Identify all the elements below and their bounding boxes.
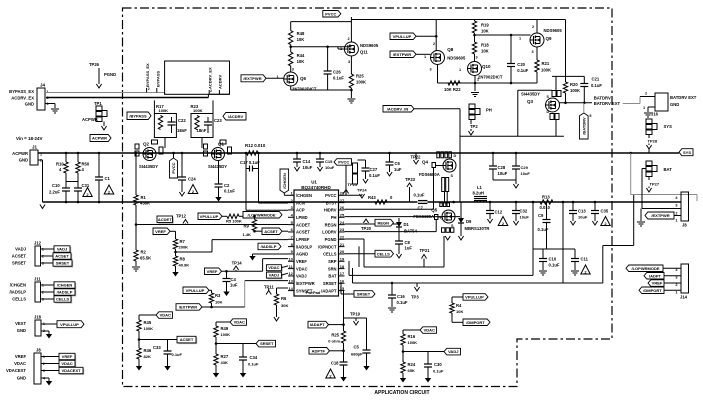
connector J16 xyxy=(651,93,697,117)
svg-text:C17 0.1uF: C17 0.1uF xyxy=(240,160,260,165)
svg-text:65K: 65K xyxy=(408,368,415,373)
ground xyxy=(51,109,59,113)
svg-text:/EXTPWR: /EXTPWR xyxy=(296,281,315,286)
wire ACDRV_IN run xyxy=(414,108,460,110)
node /DMPORT tag xyxy=(463,319,490,326)
svg-text:10: 10 xyxy=(288,256,292,261)
wire xyxy=(572,214,574,222)
pin 1 label xyxy=(643,106,645,110)
node xyxy=(350,89,353,92)
svg-text:R44: R44 xyxy=(297,53,305,58)
resistor R49 xyxy=(214,326,230,337)
node /BYPASS tag xyxy=(127,112,151,120)
capacitor C22 xyxy=(168,117,188,133)
node VPULLUP tag xyxy=(41,321,84,328)
wire J4 gnd stub xyxy=(45,103,55,105)
wire C2 lead xyxy=(218,161,220,184)
svg-text:VEXT: VEXT xyxy=(15,321,26,326)
wire xyxy=(266,77,284,79)
wire ACDRV net upper xyxy=(208,93,229,95)
svg-text:/ACDRV: /ACDRV xyxy=(228,114,244,119)
svg-text:ACDET: ACDET xyxy=(296,222,311,227)
svg-text:IADPT: IADPT xyxy=(649,273,662,278)
warning triangle xyxy=(601,217,610,226)
svg-text:/LOPWRMODE: /LOPWRMODE xyxy=(248,212,276,217)
wire xyxy=(77,191,79,202)
svg-text:VDAC: VDAC xyxy=(14,361,26,366)
transistor Q9 xyxy=(530,25,562,54)
node xyxy=(572,201,575,204)
wire C21 lead xyxy=(583,76,585,83)
svg-text:BAT: BAT xyxy=(664,167,673,172)
ground xyxy=(347,99,355,103)
wire ACDRV_EX riser xyxy=(207,94,209,97)
wire xyxy=(222,215,227,217)
svg-text:GND: GND xyxy=(17,376,26,381)
capacitor C33 xyxy=(153,340,183,358)
resistor R4 xyxy=(450,303,464,314)
pin 1 /CHGEN xyxy=(288,191,312,199)
svg-text:VPULLUP: VPULLUP xyxy=(60,322,79,327)
wire xyxy=(391,298,393,307)
svg-text:R3: R3 xyxy=(215,293,221,298)
svg-text:0.1uF: 0.1uF xyxy=(538,227,549,232)
wire xyxy=(253,168,259,170)
wire J1 gnd elbow xyxy=(38,159,43,161)
svg-text:PVCC: PVCC xyxy=(325,11,336,16)
svg-text:VPULLUP: VPULLUP xyxy=(186,288,205,293)
wire J8 pin4 xyxy=(620,201,681,203)
wire xyxy=(474,33,476,42)
node /IADSLP tag xyxy=(258,243,281,250)
svg-text:/DMPORT: /DMPORT xyxy=(466,320,485,325)
wire xyxy=(366,318,368,350)
wire xyxy=(341,293,354,295)
svg-text:CELLS: CELLS xyxy=(12,297,26,302)
ground xyxy=(172,272,178,277)
svg-text:C5: C5 xyxy=(354,345,360,350)
jumper box xyxy=(165,61,230,94)
svg-text:L1: L1 xyxy=(477,185,483,190)
node xyxy=(489,201,492,204)
connector J8 xyxy=(675,192,688,228)
ground xyxy=(179,192,184,196)
connector J14 xyxy=(675,264,688,300)
transistor Q11 xyxy=(340,37,379,64)
resistor R50 xyxy=(76,162,90,174)
svg-text:C9: C9 xyxy=(538,213,544,218)
wire xyxy=(489,214,491,220)
svg-text:2N7002DICT: 2N7002DICT xyxy=(478,75,503,80)
svg-text:/IADSLP: /IADSLP xyxy=(261,244,277,249)
wire ACP to pin3 xyxy=(246,209,288,211)
pin 1 label xyxy=(519,37,521,41)
wire xyxy=(41,330,49,332)
connector J18 xyxy=(15,315,45,337)
svg-text:C35: C35 xyxy=(601,209,609,214)
ground xyxy=(471,93,479,97)
resistor R9 xyxy=(243,220,257,238)
svg-text:CELLS: CELLS xyxy=(323,252,337,257)
testpoint TP3 xyxy=(411,283,420,300)
svg-text:GND: GND xyxy=(19,158,28,163)
node ACSET tag xyxy=(41,253,73,261)
ground xyxy=(513,221,518,225)
wire ACDRV_EX net xyxy=(46,97,208,99)
svg-text:Q9: Q9 xyxy=(546,36,553,41)
svg-text:10K R22: 10K R22 xyxy=(444,87,461,92)
node xyxy=(210,306,213,309)
wire xyxy=(594,214,596,222)
pin 6 ACSET xyxy=(288,227,310,235)
wire xyxy=(296,153,298,159)
svg-text:C15: C15 xyxy=(325,159,333,164)
warning triangle xyxy=(188,185,198,194)
svg-text:0.1uF: 0.1uF xyxy=(433,369,444,374)
transistor Q10 xyxy=(459,62,503,82)
ground xyxy=(363,366,369,371)
wire xyxy=(696,195,698,202)
svg-text:R27: R27 xyxy=(221,354,229,359)
svg-text:10uF: 10uF xyxy=(520,215,530,220)
svg-text:82K: 82K xyxy=(144,354,151,359)
wire xyxy=(460,223,462,236)
svg-text:R2: R2 xyxy=(141,250,147,255)
node xyxy=(257,152,260,155)
svg-text:ACSET: ACSET xyxy=(264,229,278,234)
wire xyxy=(416,53,431,55)
pin 12 VADJ xyxy=(288,271,307,279)
wire xyxy=(138,315,140,320)
svg-text:0.1uF: 0.1uF xyxy=(414,193,425,198)
svg-text:0.1uF: 0.1uF xyxy=(517,68,528,73)
node IADPT tag xyxy=(644,273,664,280)
svg-text:SI4435DY: SI4435DY xyxy=(139,164,158,169)
svg-text:65.5K: 65.5K xyxy=(140,256,151,261)
svg-text:ACSET: ACSET xyxy=(296,230,310,235)
wire EXTPWR drop xyxy=(244,281,246,307)
wire filter mid link xyxy=(66,181,78,183)
wire ACDET line xyxy=(136,224,288,226)
node SRSET tag xyxy=(41,260,74,268)
wire EXTPWR run xyxy=(245,280,288,282)
node xyxy=(532,201,535,204)
svg-text:ACSET: ACSET xyxy=(55,254,69,259)
diode D1 BAT54 xyxy=(396,218,418,234)
wire xyxy=(330,350,344,352)
pad block xyxy=(353,163,358,184)
wire xyxy=(674,215,681,217)
svg-text:R19: R19 xyxy=(481,23,489,28)
svg-text:VPULLUP: VPULLUP xyxy=(393,34,412,39)
wire bat gray rail xyxy=(631,194,697,196)
svg-text:Q6: Q6 xyxy=(300,76,307,81)
label BATDRV EXT xyxy=(594,101,621,106)
svg-text:ACDRV: ACDRV xyxy=(218,75,223,89)
wire xyxy=(474,76,476,83)
jumper pin BYPASS_EX xyxy=(147,87,150,93)
wire xyxy=(282,230,288,232)
svg-text:D: D xyxy=(547,110,550,114)
node xyxy=(135,152,138,155)
svg-text:R50: R50 xyxy=(82,162,90,167)
resistor R25 0ohm xyxy=(328,331,345,344)
capacitor C35 xyxy=(591,209,609,214)
wire xyxy=(276,288,278,294)
capacitor C34 xyxy=(239,344,259,367)
wire xyxy=(350,90,352,98)
node /LOPWRMODE tag xyxy=(243,212,282,219)
capacitor C24 xyxy=(178,177,196,182)
svg-text:3: 3 xyxy=(675,204,677,208)
svg-text:J4: J4 xyxy=(40,83,46,88)
wire xyxy=(365,171,367,179)
svg-text:18nF: 18nF xyxy=(177,128,187,133)
svg-text:IADAPT: IADAPT xyxy=(310,322,325,327)
svg-text:Q2: Q2 xyxy=(143,142,150,147)
ground xyxy=(400,378,406,383)
svg-text:BYPASS_EX: BYPASS_EX xyxy=(145,63,150,87)
svg-text:/EXTPWR: /EXTPWR xyxy=(179,305,197,310)
testpoint TP11 xyxy=(264,285,274,295)
svg-text:R25: R25 xyxy=(356,74,364,79)
pin 24 REGN xyxy=(325,220,345,228)
svg-text:TP23: TP23 xyxy=(405,177,416,182)
svg-text:C30: C30 xyxy=(434,362,442,367)
svg-text:C11: C11 xyxy=(581,257,589,262)
wire xyxy=(175,249,177,256)
svg-text:TP14: TP14 xyxy=(232,261,243,266)
connector J12 xyxy=(12,241,44,267)
connector J1 xyxy=(12,145,42,166)
wire xyxy=(138,359,140,366)
wire xyxy=(391,283,393,295)
wire Q2 gate drop link xyxy=(164,144,166,148)
svg-text:ACDRV_EX: ACDRV_EX xyxy=(208,67,213,89)
wire xyxy=(402,345,404,362)
ground xyxy=(513,184,518,188)
resistor R6 xyxy=(274,294,288,308)
pin 11 VDAC xyxy=(288,264,308,272)
wire xyxy=(664,289,681,291)
capacitor C13 xyxy=(569,209,588,220)
node xyxy=(492,152,495,155)
wire HIDRV riser xyxy=(433,168,435,210)
svg-text:R48: R48 xyxy=(297,31,305,36)
capacitor C32 xyxy=(512,209,529,220)
node PVCC vertical tag xyxy=(170,158,178,178)
ground xyxy=(539,271,547,275)
pin 18 SRN xyxy=(328,264,345,272)
svg-text:GND: GND xyxy=(25,102,34,107)
svg-text:C10: C10 xyxy=(549,257,557,262)
svg-text:VDAC: VDAC xyxy=(234,320,245,325)
svg-text:C26: C26 xyxy=(333,70,341,75)
wire ground/sense bottom bus xyxy=(43,201,682,203)
wire xyxy=(358,159,366,161)
svg-text:NDS9605: NDS9605 xyxy=(544,28,563,33)
svg-text:10K: 10K xyxy=(215,300,222,305)
pin 1 label xyxy=(424,55,426,59)
ground xyxy=(644,113,652,117)
connector J11 xyxy=(9,277,44,303)
svg-text:C14: C14 xyxy=(303,159,311,164)
ground xyxy=(396,254,401,258)
node xyxy=(77,201,80,204)
svg-text:VADJ: VADJ xyxy=(269,273,279,278)
pin 13 /EXTPWR xyxy=(288,278,315,286)
wire Q8 drain riser xyxy=(435,20,437,45)
svg-text:/DMPORT: /DMPORT xyxy=(643,288,662,293)
svg-text:200K: 200K xyxy=(179,245,189,250)
wire xyxy=(215,337,217,354)
svg-text:0.1uF: 0.1uF xyxy=(591,83,602,88)
node VDAC tag xyxy=(420,327,437,334)
svg-text:C20: C20 xyxy=(517,62,525,67)
wire xyxy=(536,47,538,60)
wire xyxy=(319,153,321,159)
pin 3 ACP xyxy=(288,205,305,213)
svg-text:PGND: PGND xyxy=(325,237,337,242)
wire logic rail xyxy=(351,19,565,21)
ground xyxy=(487,219,492,223)
node /CHGEN vertical tag xyxy=(280,169,289,193)
wire xyxy=(443,236,445,267)
svg-text:SRSET: SRSET xyxy=(323,281,337,286)
node xyxy=(65,152,68,155)
svg-text:BYPASS_EX: BYPASS_EX xyxy=(9,89,34,94)
node REGN tag xyxy=(375,219,394,226)
svg-text:/EXTPWR: /EXTPWR xyxy=(393,52,411,57)
wire source rail xyxy=(438,82,512,84)
svg-text:10K: 10K xyxy=(481,29,489,34)
wire SRSET drop xyxy=(340,283,342,294)
svg-text:BAT: BAT xyxy=(328,274,337,279)
wire xyxy=(138,331,140,348)
svg-text:1uF: 1uF xyxy=(230,283,238,288)
wire Q3 S rail xyxy=(552,75,584,77)
pin 7 LPREF xyxy=(288,234,310,242)
svg-text:/CHGEN: /CHGEN xyxy=(10,283,26,288)
svg-text:BYPASS: BYPASS xyxy=(156,71,161,87)
node xyxy=(245,152,248,155)
node VREF tag xyxy=(153,228,170,235)
testpoint TP23 xyxy=(405,177,416,202)
wire xyxy=(290,66,292,72)
ground xyxy=(223,292,229,297)
capacitor C31 xyxy=(74,183,90,191)
wire xyxy=(403,329,420,331)
svg-text:ACPWR: ACPWR xyxy=(82,117,98,122)
svg-text:SRSET: SRSET xyxy=(12,261,26,266)
node /ACDRV_IN tag xyxy=(383,106,414,113)
wire IADAPT to C5 xyxy=(344,317,367,319)
wire xyxy=(402,330,404,334)
pin 23 LODRV xyxy=(322,227,345,235)
node xyxy=(342,323,345,326)
wire kelvin left xyxy=(532,202,534,275)
wire xyxy=(216,321,230,323)
wire LODRV run xyxy=(345,231,437,233)
wire ACDRV drop xyxy=(212,100,214,113)
testpoint TP1 header xyxy=(82,101,107,130)
svg-text:C28: C28 xyxy=(498,165,506,170)
svg-text:TP20: TP20 xyxy=(361,226,372,231)
wire IADAPT drop xyxy=(343,290,345,331)
ground xyxy=(240,373,246,378)
node /EXTPWR tag xyxy=(176,304,202,311)
wire input power bus xyxy=(38,152,679,154)
testpoint TP19 xyxy=(350,312,361,326)
svg-text:2: 2 xyxy=(645,92,647,96)
wire xyxy=(65,153,67,162)
node xyxy=(289,46,292,49)
capacitor C15 xyxy=(316,159,335,170)
svg-text:1: 1 xyxy=(675,219,677,223)
R17-C22 network box xyxy=(154,114,176,138)
svg-text:R25: R25 xyxy=(331,333,339,338)
wire xyxy=(451,313,453,322)
wire xyxy=(254,216,256,219)
svg-text:TP1: TP1 xyxy=(94,101,102,106)
svg-text:C13: C13 xyxy=(578,209,586,214)
wire EXTPWR bottom xyxy=(202,306,245,308)
pin 25 PH xyxy=(331,212,345,220)
svg-text:R9: R9 xyxy=(244,224,250,229)
wire OPNDCT drop xyxy=(358,246,360,267)
svg-text:17: 17 xyxy=(340,271,344,276)
wire xyxy=(452,296,463,298)
wire xyxy=(77,153,79,162)
capacitor C6 xyxy=(386,161,402,172)
wire xyxy=(389,153,391,162)
node xyxy=(253,215,256,218)
svg-text:VDAC: VDAC xyxy=(61,361,72,366)
svg-text:/EXTPWR: /EXTPWR xyxy=(651,213,669,218)
node xyxy=(77,152,80,155)
svg-text:BATDRV: BATDRV xyxy=(594,96,611,101)
label Vin xyxy=(16,136,43,141)
wire R10-C10 xyxy=(65,173,67,188)
wire Q6 source xyxy=(290,86,292,90)
svg-text:R20: R20 xyxy=(570,82,578,87)
pin 27 BTST xyxy=(326,198,345,206)
wire xyxy=(648,149,650,153)
svg-text:REGN: REGN xyxy=(325,222,337,227)
svg-text:SRP: SRP xyxy=(328,259,337,264)
svg-text:1uF: 1uF xyxy=(405,246,413,251)
svg-text:R21: R21 xyxy=(542,61,550,66)
node IADAPT tag xyxy=(308,321,329,328)
warning triangle xyxy=(83,188,92,197)
svg-text:10uF: 10uF xyxy=(303,165,313,170)
transistor Q4 xyxy=(419,152,457,192)
wire xyxy=(139,339,177,341)
svg-text:/LOPWRMODE: /LOPWRMODE xyxy=(632,266,660,271)
resistor R43 xyxy=(368,195,393,204)
node /CHGEN tag xyxy=(41,282,77,290)
wire xyxy=(65,191,67,202)
svg-text:SRN: SRN xyxy=(328,266,337,271)
wire Q4 source to PH xyxy=(444,192,446,203)
svg-text:/IADSLP: /IADSLP xyxy=(9,290,26,295)
svg-text:/BYPASS: /BYPASS xyxy=(129,113,147,118)
svg-text:C4: C4 xyxy=(231,277,237,282)
node xyxy=(391,282,394,285)
node ACPWR tag xyxy=(90,135,111,142)
wire ladder mid node xyxy=(291,46,352,48)
node VPULLUP tag xyxy=(390,33,416,40)
